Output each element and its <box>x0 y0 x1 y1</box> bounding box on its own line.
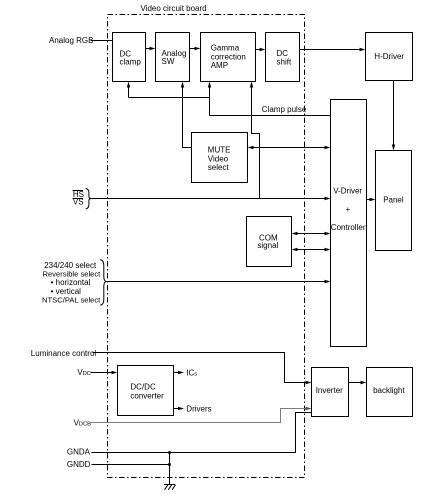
svg-text:Analog RGB: Analog RGB <box>49 36 93 45</box>
title: Video circuit board <box>141 4 207 13</box>
wire MUTE to V-Driver double arrow <box>248 146 331 149</box>
wire H-Driver to Panel <box>392 81 395 151</box>
svg-text:DC: DC <box>83 371 91 377</box>
block Gamma correction AMP <box>201 33 256 82</box>
ground symbol <box>164 485 176 490</box>
wire GNDA to Inverter <box>92 413 312 453</box>
wire DC shift to H-Driver <box>300 48 366 51</box>
label VDC <box>77 368 91 377</box>
svg-text:Inverter: Inverter <box>316 386 343 395</box>
block DC shift <box>266 33 300 82</box>
wire Analog SW to Gamma <box>190 47 201 50</box>
wire VDCB to Inverter (gray) <box>91 407 312 423</box>
svg-text:converter: converter <box>130 391 164 400</box>
block H-Driver <box>366 33 413 81</box>
svg-text:Video circuit board: Video circuit board <box>141 4 207 13</box>
label ICs <box>186 368 197 377</box>
label Luminance control <box>31 349 97 358</box>
svg-text:• horizontal: • horizontal <box>51 278 91 287</box>
label Drivers <box>186 404 211 413</box>
svg-text:AMP: AMP <box>211 61 228 70</box>
svg-text:signal: signal <box>257 241 278 250</box>
svg-text:DCB: DCB <box>79 421 91 427</box>
block V-Driver + Controller <box>331 100 367 347</box>
label Clamp pulse <box>262 105 307 114</box>
svg-text:s: s <box>194 371 197 377</box>
svg-text:Drivers: Drivers <box>186 404 211 413</box>
svg-text:SW: SW <box>162 57 175 66</box>
svg-text:Gamma: Gamma <box>211 44 240 53</box>
svg-text:NTSC/PAL select: NTSC/PAL select <box>42 296 101 305</box>
wire clamp pulse bus <box>127 82 331 116</box>
wire ground stem <box>168 451 171 484</box>
wire GNDD to ground stem <box>92 464 170 466</box>
block Panel <box>376 151 412 251</box>
svg-text:DC/DC: DC/DC <box>130 383 156 392</box>
wire DC/DC to ICs <box>174 371 185 374</box>
wire Gamma to DC shift <box>256 48 266 51</box>
wire VDC to DC/DC converter <box>91 371 118 374</box>
svg-text:backlight: backlight <box>373 386 405 395</box>
block DC/DC converter <box>118 366 174 416</box>
svg-text:Panel: Panel <box>383 195 404 204</box>
svg-text:Clamp pulse: Clamp pulse <box>262 105 307 114</box>
brace for select block <box>100 260 107 306</box>
wire HS/VS branch to Gamma <box>250 82 260 199</box>
svg-text:Reversible select: Reversible select <box>42 270 101 279</box>
label HS / VS with overlines <box>73 190 84 207</box>
label Analog RGB <box>49 36 93 45</box>
block COM signal <box>247 217 292 267</box>
wire Inverter to backlight <box>349 381 367 384</box>
wire COM signal double arrow upper <box>292 232 331 235</box>
block Inverter <box>312 368 349 417</box>
dashed board outline (Video circuit board) <box>108 15 305 478</box>
wire V-Driver to Panel <box>367 198 376 201</box>
svg-text:MUTE: MUTE <box>208 146 231 155</box>
svg-text:GNDD: GNDD <box>67 460 91 469</box>
block Analog SW <box>156 33 190 82</box>
svg-text:VS: VS <box>73 198 84 207</box>
label GNDA <box>67 448 91 457</box>
block MUTE Video select <box>192 133 248 183</box>
svg-text:• vertical: • vertical <box>51 287 82 296</box>
wire select lines to V-Driver <box>107 280 331 283</box>
svg-text:Controller: Controller <box>331 223 366 232</box>
svg-text:V-Driver: V-Driver <box>333 186 362 195</box>
wire DC clamp to Analog SW <box>146 47 156 50</box>
wire MUTE output to Analog SW <box>181 82 192 148</box>
svg-text:clamp: clamp <box>120 57 142 66</box>
wire Analog RGB input <box>91 40 113 42</box>
svg-text:shift: shift <box>277 57 292 66</box>
block backlight <box>367 368 413 417</box>
block DC clamp <box>113 33 146 82</box>
label GNDD <box>67 460 91 469</box>
wire COM signal double arrow lower <box>292 248 331 251</box>
svg-text:GNDA: GNDA <box>67 448 91 457</box>
wire HS/VS to V-Driver <box>92 197 331 200</box>
svg-text:Luminance control: Luminance control <box>31 349 97 358</box>
labels 234/240 select block <box>42 261 101 305</box>
svg-text:select: select <box>208 163 230 172</box>
label VDCB <box>74 418 92 427</box>
svg-text:H-Driver: H-Driver <box>374 52 404 61</box>
brace for HS/VS <box>86 188 92 209</box>
svg-text:IC: IC <box>186 368 194 377</box>
wire Luminance control to Inverter <box>93 353 312 385</box>
svg-text:+: + <box>346 205 351 214</box>
wire DC/DC to Drivers <box>174 407 185 410</box>
